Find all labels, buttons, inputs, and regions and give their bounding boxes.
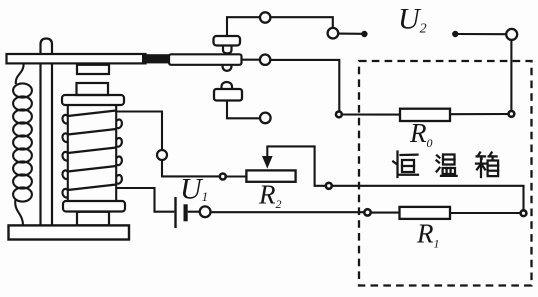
wiper wire bbox=[267, 146, 325, 185]
electromagnet bottom flange bbox=[63, 201, 125, 212]
wiper wire to R1 right bbox=[332, 186, 524, 211]
rheostat R2 bbox=[246, 170, 295, 181]
wire armature bar to terminal bbox=[242, 59, 260, 61]
relay pole piece bbox=[77, 65, 109, 74]
terminal circle middle B bbox=[260, 55, 270, 65]
wire down to R0 right bbox=[510, 40, 512, 111]
electromagnet core bobbin bbox=[67, 105, 69, 201]
wire middle to R0 left bbox=[270, 60, 339, 111]
R0 right lead bbox=[450, 113, 509, 115]
connector small circle wiper bbox=[326, 183, 332, 189]
wire terminal to R2 bbox=[162, 160, 220, 176]
wire to switch drop bbox=[270, 17, 332, 28]
U2 lead right bbox=[453, 32, 458, 37]
char 箱 bbox=[476, 153, 498, 178]
R1 right lead bbox=[450, 212, 521, 214]
coil top lead wire bbox=[116, 112, 162, 150]
terminal circle U2 right bbox=[506, 29, 517, 40]
return spring bbox=[16, 64, 24, 85]
terminal circle lower C bbox=[260, 113, 271, 124]
junction dot R0 right bbox=[509, 111, 515, 117]
char 温 bbox=[437, 155, 457, 176]
relay base plate bbox=[9, 225, 130, 239]
wire lower contact to terminal bbox=[227, 101, 260, 119]
terminal circle coil top bbox=[157, 150, 167, 160]
electromagnet top cap bbox=[77, 83, 109, 95]
electromagnet top flange bbox=[62, 95, 124, 105]
wire U1 to R1 left bbox=[211, 211, 365, 213]
R1 left lead bbox=[371, 212, 400, 214]
switch terminal circle bbox=[328, 28, 339, 39]
battery U1 plates bbox=[174, 197, 176, 228]
electromagnet bottom cap bbox=[77, 212, 109, 226]
char 恒 bbox=[393, 152, 418, 178]
wire battery to terminal bbox=[188, 211, 200, 213]
resistor R0 bbox=[400, 109, 450, 121]
junction dot R1 right bbox=[521, 210, 527, 216]
R0 left lead bbox=[342, 113, 400, 115]
armature moving contact nub bbox=[223, 65, 232, 71]
terminal circle top A bbox=[260, 12, 270, 22]
electromagnet winding bbox=[63, 111, 122, 198]
junction dot R0 left bbox=[336, 112, 342, 118]
armature insulator black segment bbox=[142, 54, 169, 63]
U2 lead left bbox=[338, 33, 362, 35]
lower fixed contact bbox=[214, 89, 242, 101]
resistor R1 bbox=[400, 207, 451, 219]
armature bar left bbox=[7, 54, 146, 63]
upper fixed contact bbox=[214, 36, 241, 46]
relay pivot post bbox=[41, 39, 53, 226]
lower fixed contact dome bbox=[222, 82, 233, 89]
wire top contact to switch bbox=[227, 17, 260, 36]
terminal circle U1 bbox=[200, 206, 211, 217]
terminal small circle R1 left bbox=[364, 209, 370, 215]
thermostat box dashed bbox=[359, 61, 532, 286]
wire to R2 left bbox=[226, 175, 247, 177]
junction connector small circle bbox=[220, 174, 226, 180]
upper contact stem bbox=[223, 46, 232, 54]
R2 wiper arrow bbox=[266, 146, 268, 157]
armature bar right bbox=[169, 54, 242, 65]
coil bottom lead wire bbox=[116, 188, 174, 212]
text 恒温箱 bbox=[393, 152, 498, 178]
